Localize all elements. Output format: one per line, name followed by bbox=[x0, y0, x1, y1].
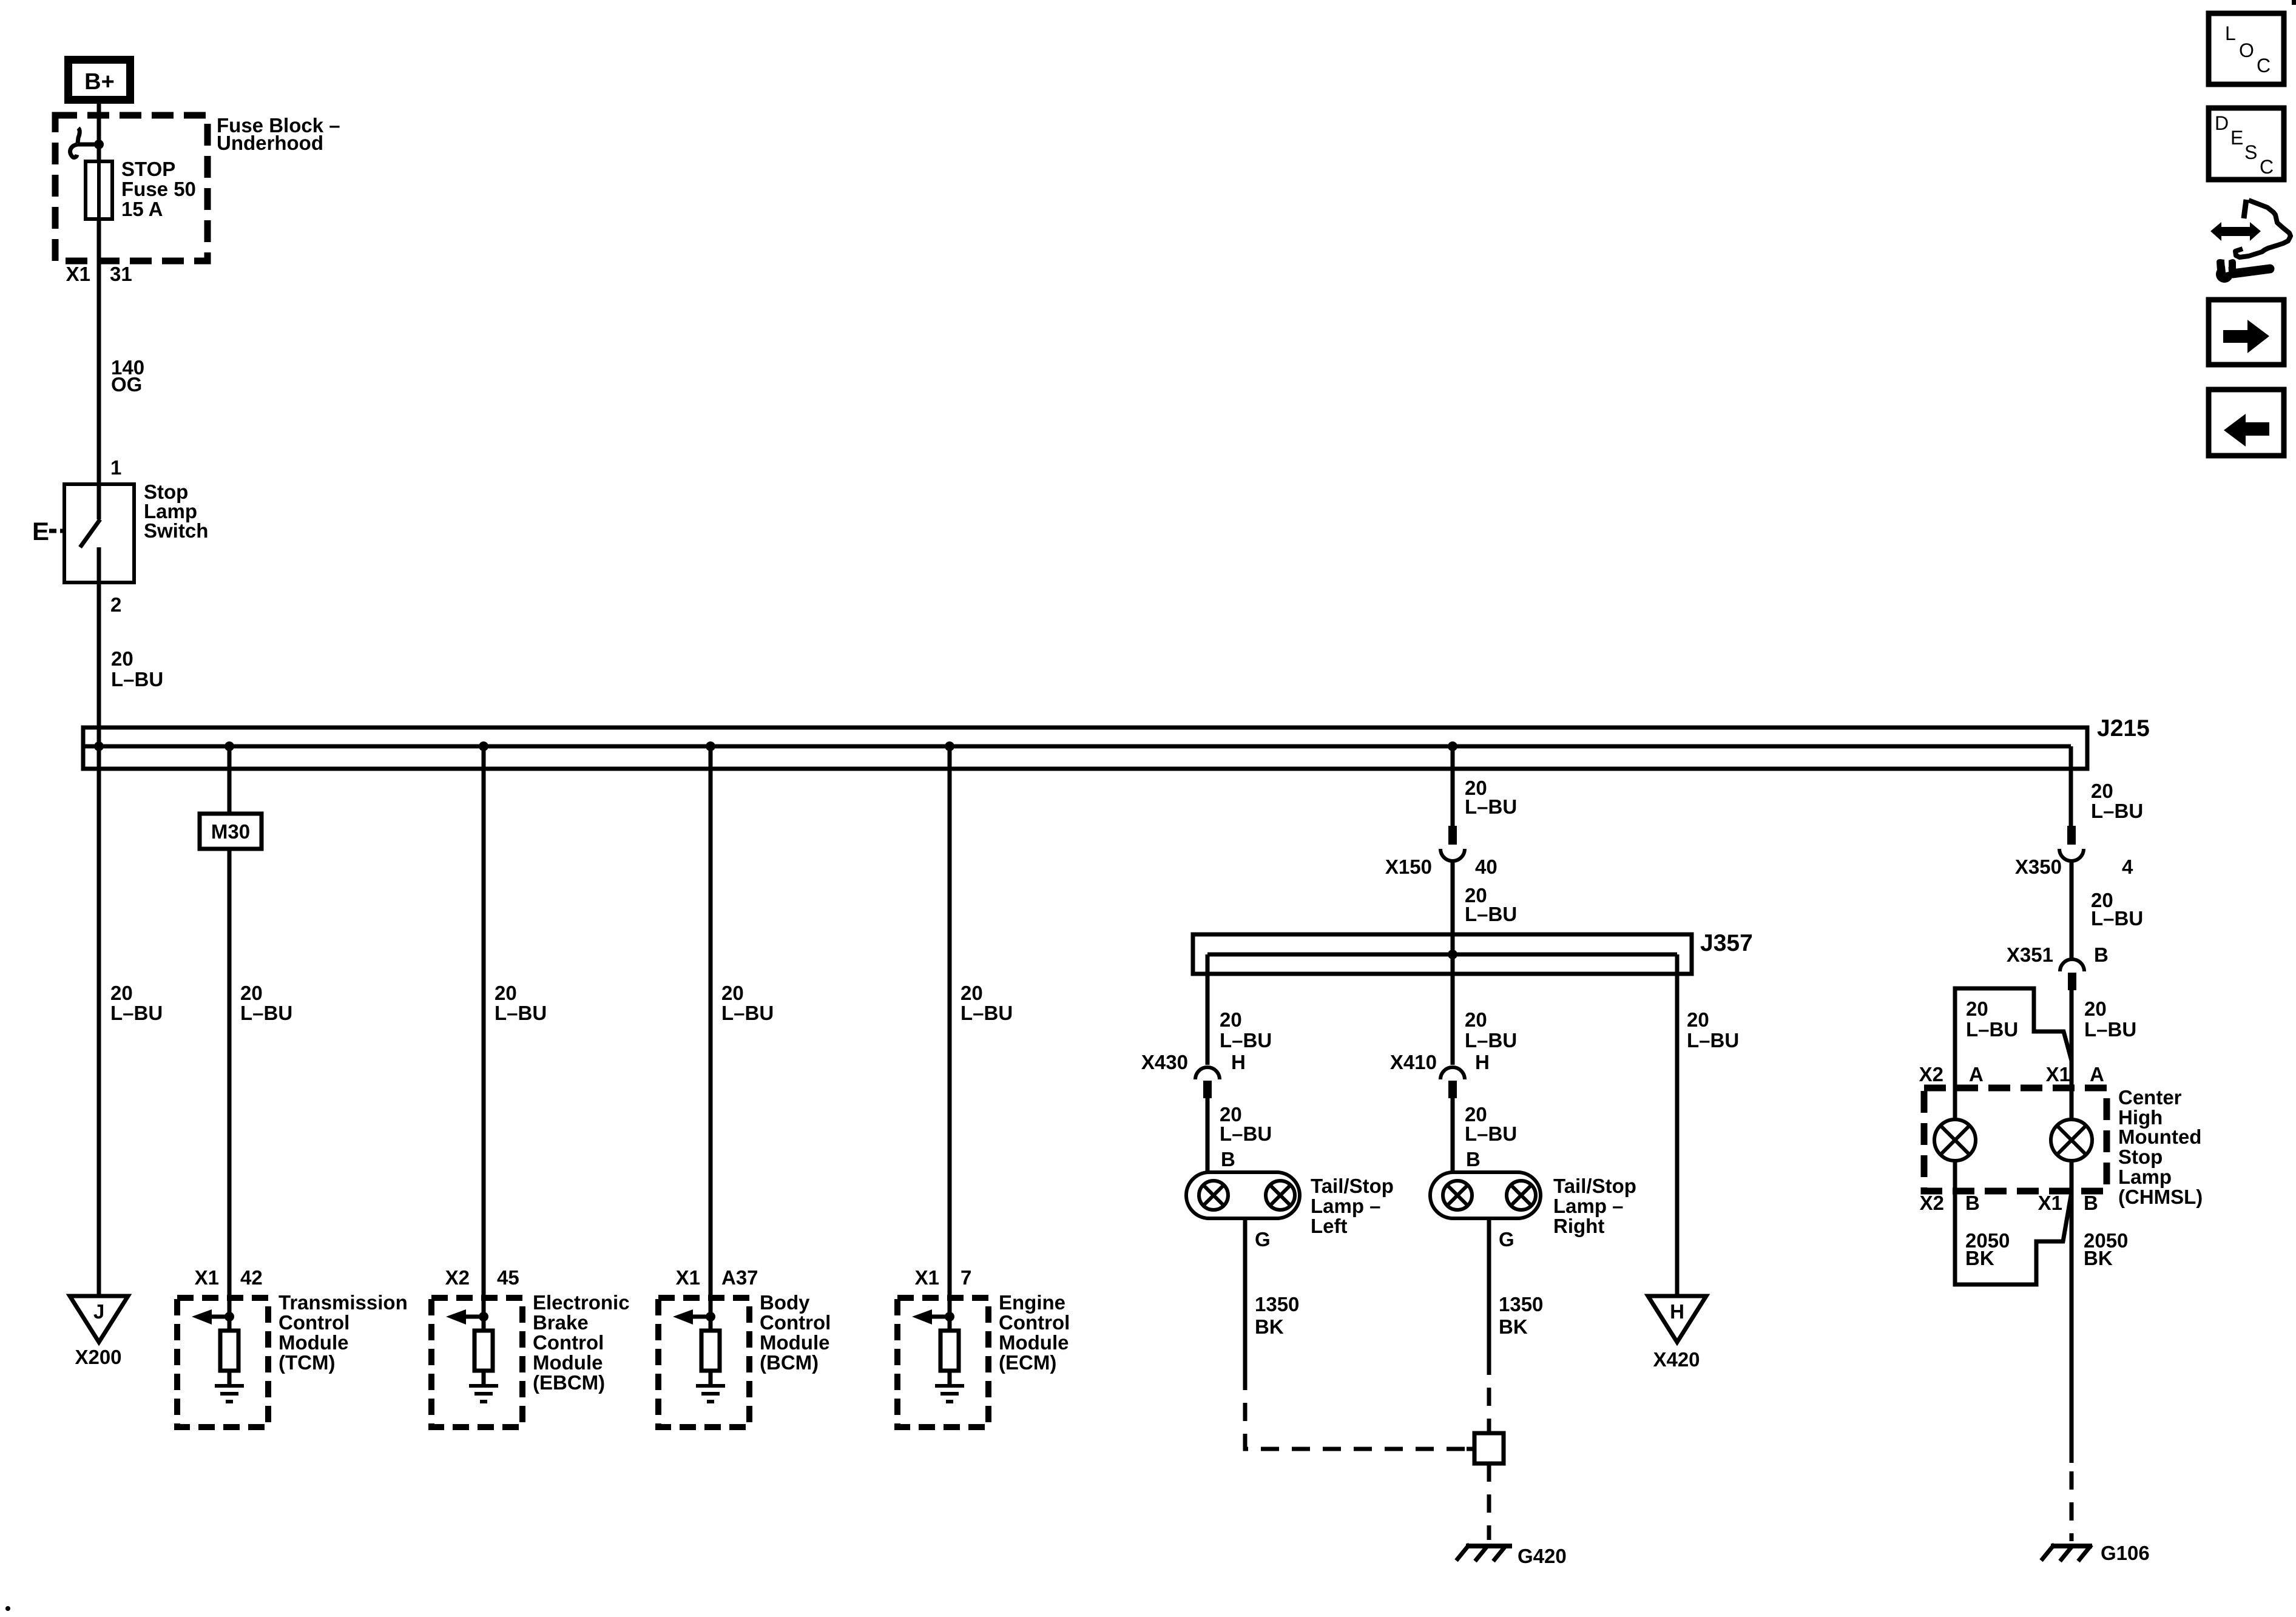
svg-text:A37: A37 bbox=[721, 1266, 758, 1289]
wire label 20 L-BU (left lamp feed) bbox=[1220, 1008, 1272, 1052]
svg-text:G106: G106 bbox=[2101, 1542, 2150, 1564]
wire: J357 to X410 bbox=[1451, 954, 1455, 1065]
svg-text:B: B bbox=[2084, 1192, 2098, 1214]
svg-text:X1: X1 bbox=[676, 1266, 700, 1289]
svg-text:X2: X2 bbox=[445, 1266, 470, 1289]
wire label 20 L-BU (X420 drop) bbox=[1687, 1008, 1739, 1052]
resistor (EBCM internal load) bbox=[474, 1331, 493, 1371]
connector X430 pin H bbox=[1195, 1067, 1220, 1098]
icon: back arrow box bbox=[2209, 390, 2284, 456]
EBCM output arrow bbox=[446, 1309, 484, 1325]
svg-text:BK: BK bbox=[2084, 1247, 2113, 1269]
pins X1 | 7 (ECM) bbox=[915, 1266, 972, 1289]
svg-text:1350: 1350 bbox=[1255, 1293, 1299, 1315]
splice bus J215 bbox=[83, 727, 2087, 769]
svg-text:L–BU: L–BU bbox=[2084, 1018, 2136, 1041]
svg-text:20: 20 bbox=[111, 647, 133, 670]
svg-text:B: B bbox=[1221, 1148, 1235, 1170]
svg-text:4: 4 bbox=[2122, 856, 2133, 878]
svg-text:X150: X150 bbox=[1385, 856, 1432, 878]
svg-text:H: H bbox=[1670, 1300, 1684, 1323]
connector X150 pin 40 bbox=[1440, 826, 1465, 861]
wire label 2050 BK (X2 return) bbox=[1965, 1229, 2010, 1269]
svg-text:20: 20 bbox=[721, 982, 744, 1004]
svg-text:Control: Control bbox=[533, 1331, 604, 1354]
wire label 20 L-BU (right lamp feed) bbox=[1465, 1008, 1517, 1052]
junction dot E bbox=[945, 741, 954, 751]
connector X200 triangle J bbox=[70, 1296, 128, 1368]
svg-text:Engine: Engine bbox=[999, 1291, 1065, 1314]
svg-text:20: 20 bbox=[2091, 780, 2113, 802]
svg-text:L–BU: L–BU bbox=[1465, 1029, 1517, 1052]
icon: LOC box bbox=[2209, 13, 2284, 84]
svg-text:C: C bbox=[2260, 156, 2274, 178]
svg-text:(CHMSL): (CHMSL) bbox=[2118, 1186, 2203, 1208]
junction dot D bbox=[706, 741, 715, 751]
svg-text:20: 20 bbox=[1966, 998, 1988, 1020]
svg-text:S: S bbox=[2244, 141, 2257, 163]
svg-text:X1: X1 bbox=[66, 263, 90, 285]
svg-text:(EBCM): (EBCM) bbox=[533, 1371, 605, 1394]
svg-text:X420: X420 bbox=[1653, 1348, 1700, 1371]
svg-text:20: 20 bbox=[1220, 1008, 1242, 1031]
svg-text:X351: X351 bbox=[2007, 944, 2053, 966]
svg-text:J: J bbox=[93, 1300, 104, 1323]
svg-text:X2: X2 bbox=[1920, 1192, 1944, 1214]
svg-text:B: B bbox=[1466, 1148, 1481, 1170]
TCM output arrow bbox=[192, 1309, 229, 1325]
svg-text:20: 20 bbox=[1687, 1008, 1709, 1031]
junction dot B bbox=[225, 741, 234, 751]
svg-text:X410: X410 bbox=[1390, 1051, 1437, 1073]
ground G420 bbox=[1456, 1544, 1512, 1561]
svg-text:Control: Control bbox=[760, 1311, 831, 1334]
wire: bus to EBCM bbox=[482, 746, 486, 1331]
svg-text:Lamp –: Lamp – bbox=[1311, 1195, 1381, 1217]
svg-text:L–BU: L–BU bbox=[1966, 1018, 2018, 1041]
svg-text:Fuse 50: Fuse 50 bbox=[121, 178, 196, 200]
ground (TCM internal) bbox=[215, 1371, 244, 1402]
svg-text:Right: Right bbox=[1553, 1215, 1604, 1237]
svg-text:X1: X1 bbox=[2046, 1063, 2070, 1085]
engine control module ECM dashed box bbox=[897, 1298, 988, 1427]
icon: forward arrow box bbox=[2209, 300, 2284, 365]
labels X150 | 40 bbox=[1385, 856, 1497, 878]
labels X350 | 4 bbox=[2015, 856, 2133, 878]
ground G106 bbox=[2041, 1544, 2092, 1561]
node E (external connection) bbox=[32, 517, 65, 545]
label: STOP Fuse 50 15 A bbox=[121, 158, 196, 220]
wire label 20 L-BU (TCM drop) bbox=[240, 982, 292, 1024]
dashed wire: left lamp to splice bbox=[1245, 1372, 1474, 1449]
pins X2 | 45 (EBCM) bbox=[445, 1266, 519, 1289]
svg-text:L–BU: L–BU bbox=[2091, 907, 2143, 930]
transmission control module TCM dashed box bbox=[177, 1298, 268, 1427]
svg-text:Left: Left bbox=[1311, 1215, 1348, 1237]
wire: X351 into CHMSL pin X1 A bbox=[2070, 990, 2074, 1119]
svg-text:Body: Body bbox=[760, 1291, 810, 1314]
svg-text:Tail/Stop: Tail/Stop bbox=[1311, 1175, 1394, 1197]
svg-text:O: O bbox=[2239, 39, 2254, 61]
resistor (BCM internal load) bbox=[701, 1331, 720, 1371]
svg-text:L–BU: L–BU bbox=[1465, 795, 1517, 818]
svg-text:B: B bbox=[1965, 1192, 1980, 1214]
svg-text:20: 20 bbox=[240, 982, 263, 1004]
fuse block - underhood dashed box bbox=[55, 115, 208, 261]
splice block (ground splice) bbox=[1467, 1447, 1474, 1451]
wire label 20 L-BU (X2 branch) bbox=[1966, 998, 2018, 1041]
wire label 20 L-BU / pin B (left lamp) bbox=[1220, 1103, 1272, 1170]
svg-text:L–BU: L–BU bbox=[2091, 800, 2143, 822]
label: Electronic Brake Control Module (EBCM) bbox=[533, 1291, 630, 1394]
svg-text:1350: 1350 bbox=[1499, 1293, 1543, 1315]
splice bus J357 bbox=[1193, 934, 1692, 974]
svg-text:L–BU: L–BU bbox=[1687, 1029, 1739, 1052]
wire label 140 OG bbox=[111, 356, 144, 396]
labels X430 | H bbox=[1141, 1051, 1246, 1073]
CHMSL bulb (X2 circuit) bbox=[1934, 1119, 1976, 1161]
in-line connector M30 bbox=[200, 814, 262, 849]
wire: bus to M30 and TCM bbox=[228, 746, 232, 1331]
label: Center High Mounted Stop Lamp (CHMSL) bbox=[2118, 1086, 2203, 1208]
wire label 20 L-BU (ECM drop) bbox=[961, 982, 1013, 1024]
svg-text:Module: Module bbox=[279, 1331, 348, 1354]
svg-text:Module: Module bbox=[760, 1331, 829, 1354]
svg-text:15 A: 15 A bbox=[121, 198, 163, 220]
junction dot (J357) bbox=[1448, 950, 1457, 959]
svg-text:Brake: Brake bbox=[533, 1311, 589, 1334]
svg-text:Underhood: Underhood bbox=[217, 132, 323, 154]
bus bar tap symbol bbox=[78, 128, 79, 143]
icon: connector repair (double arrow, outline, wrench) bbox=[2210, 200, 2291, 283]
wire: X150 to J357 bbox=[1451, 861, 1455, 954]
svg-text:E: E bbox=[32, 517, 49, 545]
CHMSL bulb (X1 circuit) bbox=[2051, 1119, 2092, 1161]
svg-text:X200: X200 bbox=[75, 1346, 121, 1368]
wire: B+ to fuse block bbox=[97, 104, 101, 161]
svg-text:2: 2 bbox=[110, 593, 121, 616]
svg-text:G: G bbox=[1255, 1228, 1271, 1251]
svg-text:M30: M30 bbox=[211, 820, 250, 843]
svg-text:Tail/Stop: Tail/Stop bbox=[1553, 1175, 1636, 1197]
svg-text:L–BU: L–BU bbox=[1220, 1122, 1272, 1145]
body control module BCM dashed box bbox=[658, 1298, 749, 1427]
svg-text:L–BU: L–BU bbox=[240, 1002, 292, 1024]
electronic brake control module EBCM dashed box bbox=[431, 1298, 522, 1427]
svg-text:(BCM): (BCM) bbox=[760, 1351, 819, 1374]
ground (EBCM internal) bbox=[469, 1371, 498, 1402]
ground (BCM internal) bbox=[696, 1371, 725, 1402]
svg-text:31: 31 bbox=[110, 263, 132, 285]
wire: J357 to X420 bbox=[1675, 954, 1680, 1296]
svg-text:L: L bbox=[2225, 22, 2236, 44]
wire: right lamp ground lead 1350 BK bbox=[1487, 1218, 1491, 1357]
svg-text:Module: Module bbox=[999, 1331, 1069, 1354]
svg-text:Center: Center bbox=[2118, 1086, 2182, 1109]
wire: switch to splice bus and down to X200 bbox=[97, 582, 101, 1296]
junction dot (BCM) bbox=[706, 1312, 715, 1322]
wire label 20 L-BU (X200 drop) bbox=[110, 982, 163, 1024]
svg-text:20: 20 bbox=[1465, 1008, 1487, 1031]
svg-text:Module: Module bbox=[533, 1351, 603, 1374]
wire: J357 to X430 bbox=[1206, 954, 1210, 1065]
wire: bus to ECM bbox=[948, 746, 952, 1331]
stop lamp switch bbox=[64, 484, 134, 582]
svg-text:D: D bbox=[2215, 112, 2229, 134]
wire: J215 to X350 bbox=[2069, 746, 2073, 827]
dashed wire: to G106 bbox=[2070, 1471, 2074, 1541]
svg-text:Lamp: Lamp bbox=[2118, 1166, 2172, 1188]
pins X2 | B and X1 | B bbox=[1920, 1192, 2098, 1214]
svg-text:L–BU: L–BU bbox=[721, 1002, 774, 1024]
dashed wire: splice to G420 bbox=[1487, 1463, 1491, 1540]
svg-text:G420: G420 bbox=[1518, 1545, 1567, 1567]
wire label 2050 BK (X1 return) bbox=[2084, 1229, 2128, 1269]
wire: bus to BCM bbox=[709, 746, 713, 1331]
wire: X350 to X351 bbox=[2070, 861, 2074, 959]
connector X351 pin B bbox=[2060, 959, 2084, 990]
svg-text:Switch: Switch bbox=[144, 519, 208, 542]
svg-text:20: 20 bbox=[110, 982, 133, 1004]
junction dot A bbox=[94, 741, 104, 751]
junction dot (ECM) bbox=[945, 1312, 954, 1322]
wire label 20 L-BU (X150 to J357) bbox=[1465, 884, 1517, 925]
connector X350 pin 4 bbox=[2059, 826, 2084, 861]
svg-text:BK: BK bbox=[1499, 1315, 1528, 1338]
junction dot (fuse tap) bbox=[94, 140, 104, 149]
label: Tail/Stop Lamp - Right bbox=[1553, 1175, 1636, 1237]
ground (ECM internal) bbox=[935, 1371, 964, 1402]
svg-text:Lamp –: Lamp – bbox=[1553, 1195, 1624, 1217]
label: Fuse Block - Underhood bbox=[217, 114, 340, 154]
svg-text:B+: B+ bbox=[84, 69, 115, 95]
wire label 20 L-BU / pin B (right lamp) bbox=[1465, 1103, 1517, 1170]
svg-text:STOP: STOP bbox=[121, 158, 175, 180]
label: Tail/Stop Lamp - Left bbox=[1311, 1175, 1394, 1237]
tail/stop lamp - right bbox=[1430, 1172, 1541, 1218]
svg-text:OG: OG bbox=[111, 373, 142, 396]
svg-text:H: H bbox=[1475, 1051, 1490, 1073]
svg-text:45: 45 bbox=[497, 1266, 519, 1289]
svg-text:L–BU: L–BU bbox=[110, 1002, 163, 1024]
svg-text:20: 20 bbox=[961, 982, 983, 1004]
connector X410 pin H bbox=[1440, 1067, 1465, 1098]
junction dot C bbox=[479, 741, 488, 751]
pins X1 | A37 (BCM) bbox=[676, 1266, 758, 1289]
wire label 20 L-BU (above X150) bbox=[1465, 777, 1517, 818]
svg-text:L–BU: L–BU bbox=[1465, 903, 1517, 925]
page corner mark bbox=[2292, 0, 2296, 5]
label: Body Control Module (BCM) bbox=[760, 1291, 831, 1374]
wire: bus J215 to X150 bbox=[1451, 746, 1455, 827]
wire: X410 to tail lamp right bbox=[1451, 1098, 1455, 1172]
svg-text:L–BU: L–BU bbox=[1465, 1122, 1517, 1145]
svg-text:20: 20 bbox=[495, 982, 517, 1004]
wire: branch to CHMSL pin X2 A bbox=[1955, 988, 2071, 1119]
labels X351 | B bbox=[2007, 944, 2109, 966]
svg-text:Control: Control bbox=[279, 1311, 349, 1334]
svg-text:X2: X2 bbox=[1919, 1063, 1943, 1085]
connector X420 triangle H bbox=[1648, 1296, 1706, 1371]
resistor (ECM internal load) bbox=[940, 1331, 959, 1371]
pins X1 | 31 bbox=[66, 263, 132, 285]
svg-text:Control: Control bbox=[999, 1311, 1070, 1334]
wire label 20 L-BU (X1 branch) bbox=[2084, 998, 2136, 1041]
svg-text:L–BU: L–BU bbox=[111, 668, 163, 690]
svg-text:20: 20 bbox=[2084, 998, 2107, 1020]
svg-text:42: 42 bbox=[240, 1266, 263, 1289]
svg-text:E: E bbox=[2230, 127, 2243, 149]
svg-text:X1: X1 bbox=[915, 1266, 939, 1289]
svg-text:J357: J357 bbox=[1700, 930, 1753, 956]
svg-text:40: 40 bbox=[1475, 856, 1497, 878]
wire label 20 L-BU (BCM drop) bbox=[721, 982, 774, 1024]
svg-text:BK: BK bbox=[1965, 1247, 1994, 1269]
svg-text:J215: J215 bbox=[2097, 715, 2150, 741]
svg-text:L–BU: L–BU bbox=[961, 1002, 1013, 1024]
junction dot (EBCM) bbox=[479, 1312, 488, 1322]
icon: DESC box bbox=[2209, 108, 2284, 180]
wire: CHMSL X2 B return bbox=[1955, 1161, 2071, 1284]
svg-text:Mounted: Mounted bbox=[2118, 1126, 2201, 1148]
wire: X430 to tail lamp left bbox=[1206, 1098, 1210, 1172]
svg-text:H: H bbox=[1231, 1051, 1246, 1073]
svg-text:L–BU: L–BU bbox=[1220, 1029, 1272, 1052]
center high mounted stop lamp CHMSL dashed box bbox=[1924, 1088, 2107, 1191]
wire label 20 L-BU (EBCM drop) bbox=[495, 982, 547, 1024]
svg-text:L–BU: L–BU bbox=[495, 1002, 547, 1024]
wire label 20 L-BU (above X350) bbox=[2091, 780, 2143, 822]
junction dot F bbox=[1448, 741, 1457, 751]
pins X1 | 42 (TCM) bbox=[195, 1266, 263, 1289]
wire label 20 L-BU (X350 to X351) bbox=[2091, 889, 2143, 930]
pins X2 | A and X1 | A bbox=[1919, 1063, 2104, 1085]
label: Engine Control Module (ECM) bbox=[999, 1291, 1070, 1374]
svg-text:Stop: Stop bbox=[2118, 1146, 2163, 1168]
resistor (TCM internal load) bbox=[220, 1331, 238, 1371]
wire: left lamp ground lead 1350 BK bbox=[1243, 1218, 1248, 1372]
svg-text:B: B bbox=[2094, 944, 2109, 966]
svg-text:Electronic: Electronic bbox=[533, 1291, 630, 1314]
dashed wire: right lamp to splice bbox=[1487, 1357, 1491, 1433]
svg-text:(ECM): (ECM) bbox=[999, 1351, 1056, 1374]
svg-text:C: C bbox=[2257, 55, 2271, 76]
labels X410 | H bbox=[1390, 1051, 1490, 1073]
label: Transmission Control Module (TCM) bbox=[279, 1291, 408, 1374]
tail/stop lamp - left bbox=[1186, 1172, 1300, 1218]
BCM output arrow bbox=[673, 1309, 711, 1325]
page dot bbox=[5, 1606, 10, 1611]
svg-text:1: 1 bbox=[110, 456, 121, 479]
svg-text:G: G bbox=[1499, 1228, 1514, 1251]
junction dot (TCM) bbox=[225, 1312, 234, 1322]
fuse STOP Fuse 50 15 A bbox=[97, 144, 101, 484]
svg-text:A: A bbox=[2090, 1063, 2104, 1085]
svg-text:X1: X1 bbox=[2038, 1192, 2062, 1214]
label: Stop Lamp Switch bbox=[144, 481, 208, 542]
svg-text:X430: X430 bbox=[1141, 1051, 1188, 1073]
svg-text:7: 7 bbox=[961, 1266, 971, 1289]
svg-text:BK: BK bbox=[1255, 1315, 1284, 1338]
wire label 20 L-BU (switch output) bbox=[111, 647, 163, 690]
svg-text:(TCM): (TCM) bbox=[279, 1351, 335, 1374]
ECM output arrow bbox=[912, 1309, 950, 1325]
battery positive voltage symbol B+ bbox=[64, 56, 134, 104]
svg-text:X350: X350 bbox=[2015, 856, 2062, 878]
svg-text:X1: X1 bbox=[195, 1266, 219, 1289]
svg-text:A: A bbox=[1969, 1063, 1984, 1085]
wire: CHMSL X1 B to ground 2050 BK bbox=[2070, 1161, 2074, 1463]
svg-text:Transmission: Transmission bbox=[279, 1291, 408, 1314]
